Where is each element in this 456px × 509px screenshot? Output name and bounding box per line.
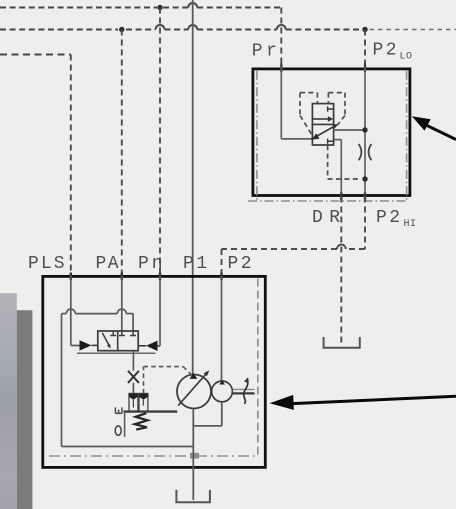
svg-text:P2: P2	[228, 254, 255, 274]
valve U2 flow arrow middle	[313, 118, 329, 120]
callout arrow bottom	[292, 396, 456, 403]
wire: P2LO vertical dashed	[364, 30, 366, 68]
wire: tank manifold line with hops	[62, 314, 134, 447]
valve V1 left pilot arrow	[80, 340, 92, 350]
tick: P2HI crossing bottom edge of top box	[364, 193, 366, 201]
wire: U2 bottom pilot dashed	[328, 145, 361, 179]
wire: thick gallery line to pump	[124, 410, 178, 412]
wire: P2 dashed down into pump box	[221, 249, 223, 276]
svg-text:P2: P2	[376, 208, 403, 228]
wire: dashed supply line L2	[0, 29, 361, 31]
pump main circle	[177, 375, 211, 409]
svg-text:Pn: Pn	[138, 254, 166, 274]
tank symbol bottom	[176, 490, 210, 502]
valve V1 divider	[117, 331, 119, 351]
pilot pump outlet triangle	[219, 380, 225, 384]
svg-text:Pr: Pr	[252, 42, 281, 62]
tick: P2LO crossing top box edge	[364, 64, 366, 73]
tick: P2 entering pump box	[220, 273, 222, 281]
top box inner chain border left	[256, 71, 258, 201]
wire: pilot drain under valve V1	[77, 352, 156, 354]
svg-text:PLS: PLS	[28, 254, 67, 274]
top valve block box	[253, 69, 410, 196]
valve V1 port T2	[119, 331, 125, 336]
svg-text:PA: PA	[96, 254, 121, 274]
wire: U2 right port to P2LO node	[334, 129, 365, 131]
node: junction dot L2/P2LO	[362, 27, 367, 32]
valve U2 pilot arrowhead bottom left	[311, 133, 319, 139]
photo fragment dark bar	[17, 310, 33, 509]
valve U2 middle line	[312, 123, 333, 125]
wire: Pn vertical dashed	[159, 8, 161, 277]
wire hop: L2 over Pn	[156, 25, 165, 29]
wire: dashed supply line L1	[0, 7, 281, 9]
pilot outlet double line	[233, 388, 255, 390]
valve V1 diagonal arrow left cell	[102, 333, 108, 345]
svg-text:P2: P2	[373, 41, 400, 61]
valve V1 right pilot arrow	[146, 341, 158, 351]
wire: PA vertical dashed	[121, 30, 123, 277]
valve V1 port T3	[130, 331, 136, 336]
valve U2 body (pressure reducing valve, top box)	[312, 104, 333, 145]
wire hop: manifold over PLS	[66, 309, 75, 313]
wire: P2LO inside box down	[364, 68, 366, 197]
wire: X to plunger	[132, 383, 134, 394]
wire: PLS inside box	[71, 276, 80, 346]
spring	[135, 413, 148, 429]
tick: PLS entering pump box	[70, 273, 72, 281]
node: junction dot L2/PA	[119, 27, 124, 32]
node: junction dot pilot/P2LO	[362, 176, 367, 181]
pump swash diagonal arrow	[178, 374, 206, 406]
top box inner chain border bottom	[248, 200, 407, 202]
node: junction dot on P2LO	[362, 127, 367, 132]
wire hop: L2 over P1	[188, 25, 197, 29]
wire: DR dashed down to tank	[340, 197, 342, 346]
pump box	[43, 276, 265, 467]
valve U2 port T top right	[328, 106, 334, 111]
label 0 port	[115, 426, 121, 435]
wire hop: P2 line over DR line	[337, 245, 346, 249]
tank symbol mid	[324, 337, 360, 348]
wire: Pr to valve left port	[281, 138, 312, 140]
orifice on P2LO line	[359, 144, 372, 160]
wire: U2 lower right to drain	[334, 140, 342, 197]
wire: Pr vertical dashed	[280, 8, 282, 68]
valve U2 diagonal adjustment arrow	[314, 126, 335, 138]
tick: Pr crossing top box edge	[280, 64, 282, 73]
wire: P2HI dashed down	[364, 197, 366, 250]
orifice X	[128, 371, 139, 383]
wire: tank collector line	[62, 446, 194, 448]
wire hop: manifold over PA	[117, 309, 126, 314]
port M symbol	[115, 407, 122, 413]
svg-text:LO: LO	[400, 52, 413, 63]
wire: P2 inside box	[221, 276, 223, 381]
node: junction dot L1/Pn	[157, 5, 162, 10]
wire: LS pilot dashed to pump control	[144, 367, 191, 394]
wire: P1 solid vertical	[192, 0, 194, 375]
pilot relief curved arrow	[244, 380, 248, 404]
valve V1 body (LS control valve)	[98, 331, 138, 351]
pump outlet triangle	[190, 373, 198, 379]
wire hop: L1 over P1 line	[188, 3, 197, 8]
callout arrow top	[427, 126, 456, 140]
tick: PA entering pump box	[121, 273, 123, 281]
photo fragment light panel	[0, 293, 17, 509]
svg-text:P1: P1	[183, 254, 210, 274]
valve V1 port T1	[110, 331, 116, 336]
tick: Pn entering pump box	[159, 273, 161, 281]
svg-text:HI: HI	[404, 219, 417, 230]
wire: PLS vertical dashed	[70, 55, 72, 277]
wire: P2HI dashed horizontal to P2	[222, 248, 366, 250]
wire: valve V1 bottom port down	[132, 351, 134, 371]
pilot chamber dashed outline around U2	[300, 93, 345, 136]
plunger bar 2	[139, 394, 148, 412]
valve U2 port T bottom right	[328, 139, 334, 144]
wire: pump suction down	[192, 409, 194, 500]
wire hop: L2 over Pr	[277, 25, 286, 29]
drain marker on inner border	[190, 453, 199, 459]
wire: M port stub down	[124, 412, 126, 437]
top box inner chain border right	[406, 71, 408, 201]
plunger bar 1	[129, 394, 138, 412]
wire: dashed line L3 to PLS	[0, 54, 71, 56]
wire: pilot pump suction	[193, 402, 222, 426]
tick: DR crossing bottom edge of top box	[340, 193, 342, 201]
wire: Pr inside box down	[280, 68, 282, 139]
pump box inner chain border bottom	[49, 455, 258, 457]
wire: PA inside box	[121, 276, 123, 331]
pump box inner dashed border right	[257, 279, 259, 457]
pilot pump circle	[212, 381, 233, 402]
wire: Pn inside box	[157, 276, 160, 346]
